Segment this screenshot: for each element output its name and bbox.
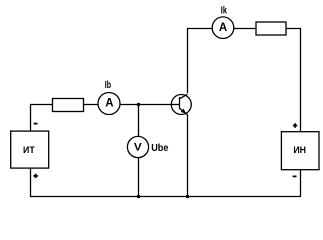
svg-text:ИТ: ИТ [23, 145, 35, 155]
svg-text:A: A [219, 22, 227, 34]
svg-text:V: V [134, 141, 143, 153]
svg-text:Ib: Ib [105, 80, 111, 91]
svg-text:Ube: Ube [151, 143, 168, 154]
svg-text:ИН: ИН [293, 145, 306, 155]
svg-text:Ik: Ik [221, 5, 227, 16]
svg-text:A: A [105, 98, 113, 110]
